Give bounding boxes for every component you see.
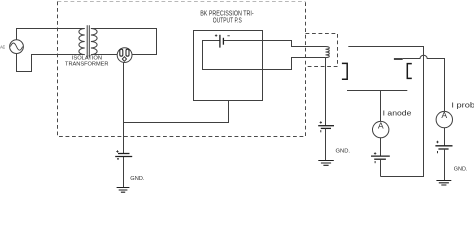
dashed isolation boundary box (left, bottom, right edges) (58, 2, 306, 137)
svg-text:AC: AC (0, 44, 5, 49)
ground (middle stack) (318, 161, 334, 166)
dashed isolation boundary box (top edge) (58, 1, 306, 3)
wire: secondary top to right then down to outlet right (91, 29, 157, 55)
plate element ] (left) (342, 63, 347, 79)
wire: probe battery to ground (444, 149, 446, 181)
outlet plug symbol J1 (117, 48, 132, 63)
battery B1 (inside BK supply) (215, 34, 230, 47)
battery B2 (left stack) (115, 150, 132, 160)
svg-text:TRANSFORMER: TRANSFORMER (65, 61, 109, 67)
battery B4 (anode supply) (371, 152, 390, 163)
wire: outlet ground down to battery (123, 63, 125, 154)
heater filament coil (326, 47, 330, 58)
ground (left stack) (117, 188, 130, 193)
plate element [ (right) (407, 64, 412, 79)
wire: bar tap down to I anode ammeter (380, 91, 382, 122)
wire: AC bottom loop to transformer primary bottom (17, 54, 85, 72)
wire: BK inner loop top (battery to heater top) (223, 41, 325, 47)
svg-text:I probe: I probe (451, 102, 474, 110)
wire: battery to ground (middle) (325, 129, 327, 161)
wire: grid to I probe with hop over anode wire (403, 55, 445, 111)
svg-text:GND.: GND. (336, 149, 351, 155)
BK power supply outer box (194, 31, 263, 101)
svg-text:GND.: GND. (130, 176, 145, 182)
wire: junction branch right and up to BK box bottom (124, 101, 229, 123)
svg-text:BK PRECISSION TRI-: BK PRECISSION TRI- (200, 10, 254, 17)
svg-text:I anode: I anode (383, 109, 412, 117)
svg-text:A: A (441, 110, 447, 120)
battery B3 (middle stack) (318, 121, 334, 132)
svg-text:OUTPUT P.S: OUTPUT P.S (213, 18, 242, 25)
small dashed box around heater filament (306, 34, 338, 67)
ammeter I probe (436, 110, 452, 128)
ground (probe stack) (436, 181, 451, 186)
wire: I probe ammeter to battery (444, 128, 446, 146)
isolation transformer T1 (65, 25, 109, 67)
wire: anode supply top wire, right side down and bottom to battery (348, 47, 423, 177)
wire: anode battery bottom down (380, 159, 382, 176)
AC source V1 (0, 40, 23, 54)
wire: battery to ground (123, 157, 125, 188)
wire: cathode bar connecting plates (347, 90, 407, 92)
grid element (thick dash) (394, 58, 403, 60)
wire: AC top to transformer primary top (17, 29, 85, 40)
wire: secondary bottom to outlet left (91, 54, 117, 56)
svg-text:A: A (378, 120, 384, 130)
battery B5 (probe) (435, 141, 452, 153)
wire: heater bottom down to battery (middle stack) (325, 58, 327, 126)
wire: I anode ammeter to battery (380, 138, 382, 156)
ammeter I anode (373, 120, 389, 137)
svg-text:GND.: GND. (454, 166, 468, 172)
wire: BK inner loop top (left part to battery) (203, 41, 326, 70)
